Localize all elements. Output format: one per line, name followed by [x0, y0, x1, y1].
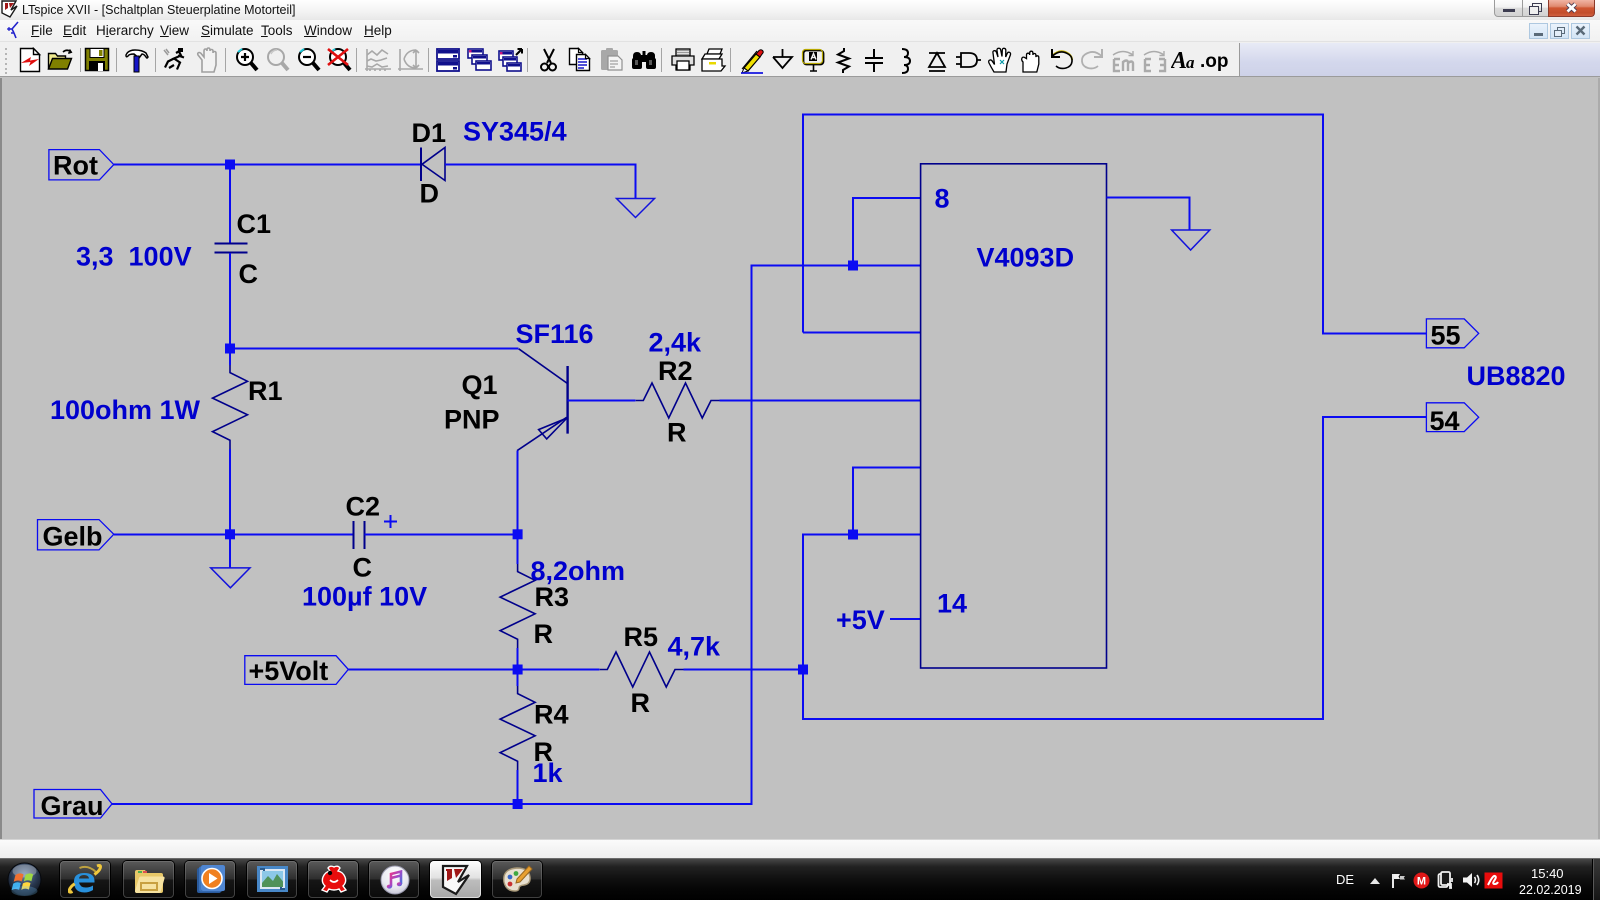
wire R5 to big loop	[684, 669, 803, 671]
IE	[60, 861, 110, 898]
Explorer	[123, 861, 174, 898]
wire Gelb to C2	[114, 533, 354, 535]
wire Rot to D1	[114, 164, 421, 166]
wire Q1 emitter down	[517, 451, 519, 535]
node junction R5/loop	[798, 665, 808, 675]
resistor R2	[636, 383, 720, 418]
svg-text:R: R	[534, 619, 554, 649]
capacitor C1	[229, 165, 231, 244]
svg-text:R2: R2	[658, 356, 693, 386]
svg-text:8,2ohm: 8,2ohm	[531, 556, 626, 586]
svg-text:C2: C2	[346, 492, 381, 522]
svg-text:Grau: Grau	[41, 791, 104, 821]
wire +5V label	[890, 618, 921, 620]
svg-text:54: 54	[1430, 406, 1460, 436]
svg-text:a: a	[1186, 53, 1195, 72]
ground (below Gelb junction)	[211, 568, 250, 588]
svg-text:+5Volt: +5Volt	[249, 656, 329, 686]
wire IC to ground (top right)	[1107, 197, 1190, 230]
resistor R1	[229, 349, 231, 366]
node junction Grau/R4	[513, 799, 523, 809]
polarity plus of C2	[384, 515, 397, 528]
wire Grau riser to IC pin	[112, 266, 921, 805]
svg-text:R: R	[631, 688, 651, 718]
wire pin 8 hook	[853, 198, 921, 266]
node junction pin8 hook	[848, 261, 858, 271]
iTunes	[369, 861, 419, 898]
resistor R4	[517, 670, 519, 687]
svg-text:4,7k: 4,7k	[668, 632, 722, 662]
svg-text:UB8820: UB8820	[1467, 361, 1566, 391]
svg-text:M: M	[1417, 876, 1426, 888]
LTspice active button	[430, 861, 481, 898]
wire R2 to IC pin	[720, 400, 921, 402]
wire pin hook 467	[853, 468, 921, 535]
svg-text:D1: D1	[412, 118, 447, 148]
svg-text:2,4k: 2,4k	[649, 328, 703, 358]
svg-text:C: C	[353, 553, 373, 583]
node junction C2/Q1/R3	[513, 529, 523, 539]
IC U1 V4093D	[921, 164, 1107, 668]
schematic MDI icon	[6, 21, 22, 40]
port flag 54	[1426, 403, 1478, 432]
MDI child window buttons	[1529, 23, 1548, 39]
port flag Rot	[49, 150, 114, 180]
svg-text:14: 14	[937, 589, 967, 619]
transistor Q1	[566, 366, 568, 434]
resistor R3	[517, 534, 519, 564]
IrfanView	[308, 861, 358, 898]
svg-text:SF116: SF116	[516, 319, 594, 349]
Photo viewer	[247, 861, 297, 898]
LTspice app icon	[1, 0, 19, 19]
svg-text:.op: .op	[1200, 51, 1229, 72]
ground (top right of D1)	[617, 199, 655, 218]
svg-text:V4093D: V4093D	[977, 243, 1075, 273]
svg-text:100µf 10V: 100µf 10V	[302, 582, 427, 612]
port flag +5Volt	[245, 656, 348, 685]
svg-text:R3: R3	[535, 582, 570, 612]
node junction loop/pin hook	[848, 530, 858, 540]
port flag Grau	[34, 790, 112, 819]
wire big loop top / port 55	[803, 115, 1426, 334]
svg-text:R5: R5	[624, 622, 659, 652]
svg-text:R: R	[667, 418, 687, 448]
WMP	[185, 861, 235, 898]
wire node to Q1 collector	[230, 348, 519, 350]
port flag Gelb	[38, 520, 114, 550]
wire junction to ground	[229, 534, 231, 568]
svg-text:Gelb: Gelb	[43, 522, 103, 552]
diode D1	[420, 148, 422, 182]
svg-text:+5V: +5V	[836, 605, 885, 635]
svg-text:100ohm 1W: 100ohm 1W	[50, 395, 201, 425]
wire +5Volt to R5	[348, 669, 599, 671]
svg-text:3,3 100V: 3,3 100V	[76, 242, 192, 272]
ground (IC top right)	[1172, 230, 1210, 250]
port flag 55	[1426, 319, 1478, 348]
wire D1 to ground	[445, 165, 635, 199]
node junction R3/R4/R5	[513, 665, 523, 675]
svg-text:PNP: PNP	[444, 405, 500, 435]
svg-text:1k: 1k	[533, 758, 564, 788]
svg-text:R4: R4	[534, 700, 569, 730]
capacitor C2	[353, 521, 355, 549]
resistor R5	[600, 652, 684, 687]
svg-text:R1: R1	[248, 376, 283, 406]
svg-text:SY345/4: SY345/4	[463, 117, 567, 147]
start orb	[6, 861, 43, 898]
wire loop stub to IC	[803, 332, 921, 334]
wire Q1 base to R2	[568, 400, 636, 402]
svg-text:C: C	[239, 259, 259, 289]
svg-text:8: 8	[935, 184, 950, 214]
svg-text:Rot: Rot	[53, 151, 98, 181]
svg-text:A: A	[1171, 48, 1187, 74]
tray	[1336, 872, 1354, 887]
node junction Rot/C1	[225, 160, 235, 170]
svg-text:Q1: Q1	[462, 370, 498, 400]
wire big loop bottom / port 54	[803, 417, 1426, 719]
node junction Gelb/R1/gnd	[225, 529, 235, 539]
svg-text:D: D	[420, 179, 440, 209]
Paint	[492, 861, 542, 898]
node junction C1/R1	[225, 344, 235, 354]
svg-text:55: 55	[1431, 321, 1461, 351]
window buttons	[1494, 0, 1523, 17]
svg-text:C1: C1	[237, 209, 272, 239]
